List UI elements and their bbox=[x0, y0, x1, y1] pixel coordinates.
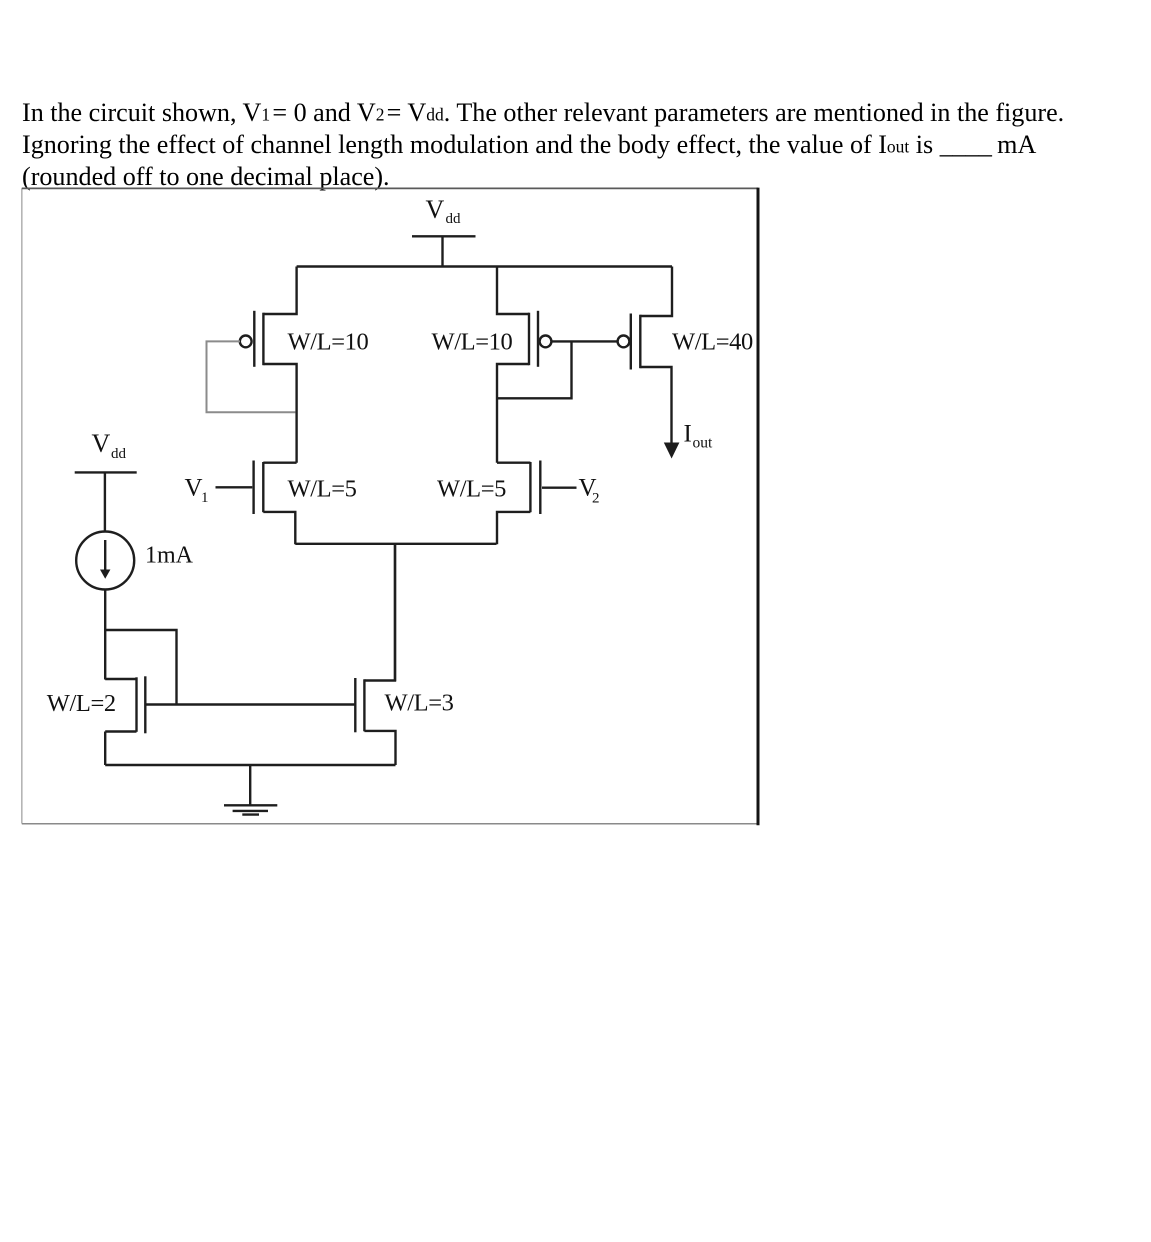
svg-text:W/L=10: W/L=10 bbox=[288, 329, 369, 356]
svg-text:W/L=3: W/L=3 bbox=[385, 690, 454, 717]
svg-text:dd: dd bbox=[446, 211, 462, 227]
svg-text:W/L=10: W/L=10 bbox=[432, 329, 513, 356]
svg-text:dd: dd bbox=[111, 446, 127, 462]
svg-text:1: 1 bbox=[201, 490, 209, 506]
svg-text:V: V bbox=[92, 429, 111, 458]
svg-text:W/L=5: W/L=5 bbox=[437, 476, 506, 503]
svg-text:W/L=2: W/L=2 bbox=[47, 690, 116, 717]
svg-text:out: out bbox=[693, 435, 714, 452]
svg-text:V: V bbox=[185, 475, 203, 502]
svg-text:V: V bbox=[426, 195, 445, 224]
svg-text:W/L=40: W/L=40 bbox=[672, 329, 753, 356]
svg-text:W/L=5: W/L=5 bbox=[288, 476, 357, 503]
svg-text:I: I bbox=[684, 421, 692, 448]
svg-text:1mA: 1mA bbox=[145, 543, 194, 569]
svg-text:2: 2 bbox=[592, 491, 600, 507]
